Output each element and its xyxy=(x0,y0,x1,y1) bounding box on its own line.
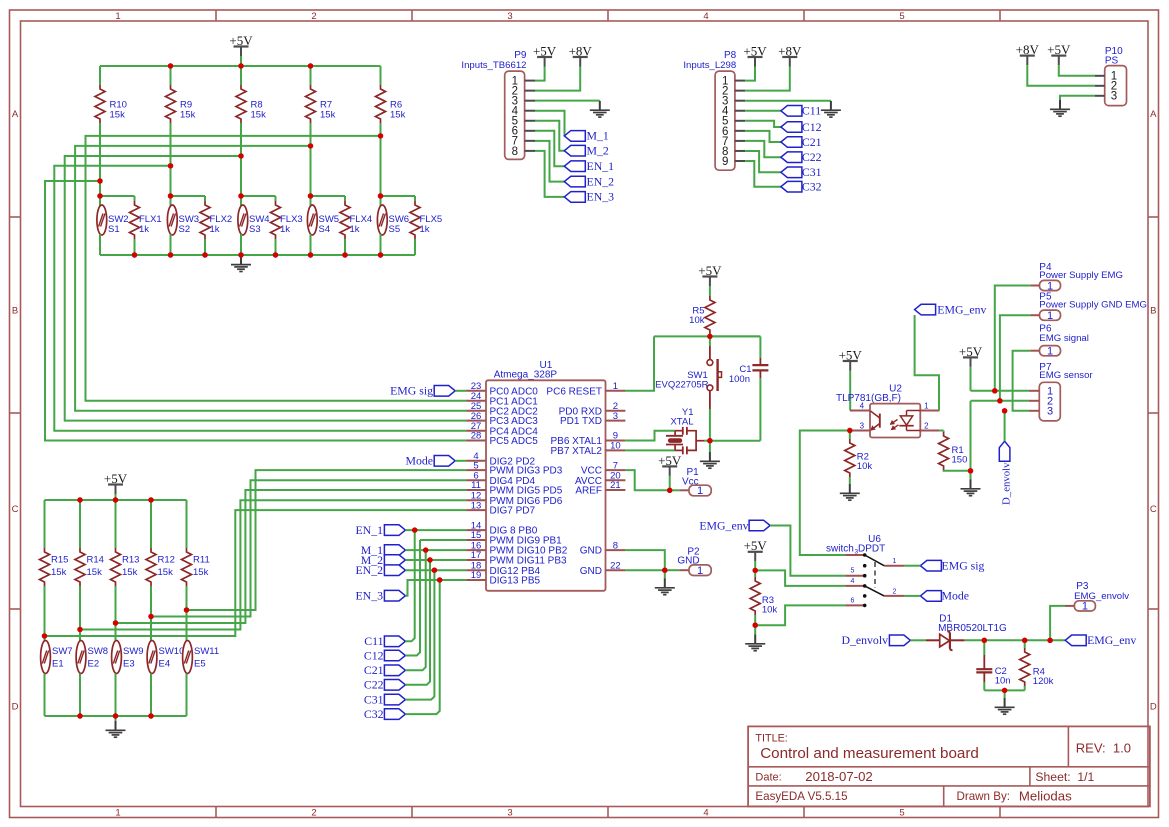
U1 pin 21 AREF xyxy=(575,480,625,496)
svg-text:10n: 10n xyxy=(995,676,1011,687)
U1 pin 22 GND xyxy=(580,560,626,576)
svg-text:E3: E3 xyxy=(123,659,135,670)
svg-text:DIG7 PD7: DIG7 PD7 xyxy=(490,506,536,517)
wire bottom bus top array xyxy=(100,254,415,256)
net flag EN_1 xyxy=(564,159,614,173)
svg-text:S2: S2 xyxy=(179,224,191,235)
resistor R4 120k xyxy=(1020,640,1054,690)
svg-text:EN_2: EN_2 xyxy=(587,174,615,188)
wire EN_3 to U1 pin19 xyxy=(405,577,466,595)
wire P8 pin4 to C11 xyxy=(745,110,781,112)
U1 pin 8 GND xyxy=(580,540,626,556)
power +8V at P8 xyxy=(745,43,802,90)
net flag EMG_env at output xyxy=(1065,633,1136,647)
node top of SW5/FLX4 pair xyxy=(308,193,345,198)
wire M_2 to U1 xyxy=(405,557,466,562)
power +5V at P10 xyxy=(1047,42,1095,76)
wire column R13 to switch xyxy=(115,586,117,642)
wire C12 riser to U1 pin row xyxy=(405,540,420,656)
switch SW6 S5 xyxy=(377,196,409,255)
net flag Mode at switch pin2 xyxy=(905,589,969,603)
switch SW11 E5 xyxy=(183,641,220,717)
svg-text:EMG sensor: EMG sensor xyxy=(1039,370,1093,381)
svg-text:E5: E5 xyxy=(194,659,206,670)
resistor R15 15k xyxy=(40,500,69,586)
U1 pin 9 PB6 XTAL1 xyxy=(550,431,625,447)
net flag EN_2 xyxy=(355,563,405,577)
svg-text:21: 21 xyxy=(610,480,621,491)
svg-text:DIG13 PB5: DIG13 PB5 xyxy=(490,576,541,587)
svg-text:EMG sig: EMG sig xyxy=(390,384,433,398)
U1 pin 2 PD0 RXD xyxy=(559,401,626,417)
switch SW5 S4 xyxy=(307,196,339,255)
wire bottom divider tap to U1 pin xyxy=(77,500,466,632)
wire P10 pin3 to ground xyxy=(1060,96,1095,100)
svg-text:PB7 XTAL2: PB7 XTAL2 xyxy=(550,446,602,457)
svg-text:SW7: SW7 xyxy=(52,646,73,657)
net flag C22 at P8 xyxy=(781,150,822,164)
svg-text:M_1: M_1 xyxy=(587,129,609,143)
svg-text:3: 3 xyxy=(613,411,618,422)
svg-text:2: 2 xyxy=(311,807,316,818)
svg-text:EasyEDA V5.5.15: EasyEDA V5.5.15 xyxy=(755,790,847,803)
svg-text:3: 3 xyxy=(507,11,512,22)
svg-text:EMG sig: EMG sig xyxy=(942,559,985,573)
svg-text:E2: E2 xyxy=(88,659,100,670)
svg-text:2: 2 xyxy=(924,421,929,430)
U1 pin 27 PC4 ADC4 xyxy=(466,421,538,437)
power +5V bottom-left array xyxy=(104,471,128,500)
svg-text:B: B xyxy=(12,305,18,316)
wire column R7 to switch node xyxy=(310,123,312,196)
svg-text:9: 9 xyxy=(722,156,728,168)
wire P6 to P7 pin3 net xyxy=(1002,351,1031,414)
svg-text:S5: S5 xyxy=(389,224,401,235)
wire GND rail P7 pin2 xyxy=(968,401,1029,474)
net flag C22 xyxy=(364,678,406,692)
svg-text:1: 1 xyxy=(613,381,618,392)
wire +5V to P7 pin1 xyxy=(971,390,1029,392)
resistor R2 10k xyxy=(845,428,873,484)
svg-text:3: 3 xyxy=(1111,91,1117,103)
svg-text:PD1 TXD: PD1 TXD xyxy=(560,416,602,427)
wire C2/R4 bottom bus xyxy=(984,688,1024,693)
svg-text:1: 1 xyxy=(115,11,120,22)
svg-text:C: C xyxy=(1150,504,1157,515)
svg-text:15k: 15k xyxy=(122,567,138,578)
resistor R14 15k xyxy=(75,500,104,586)
net flag C32 at P8 xyxy=(781,180,822,194)
wire C11 riser to U1 pin row xyxy=(405,530,414,641)
svg-text:EMG_env: EMG_env xyxy=(937,302,986,316)
U1 pin 1 PC6 RESET xyxy=(546,381,625,397)
resistor R5 10k xyxy=(689,296,715,336)
svg-text:EN_2: EN_2 xyxy=(355,563,383,577)
ground below SW1 xyxy=(700,441,720,469)
node top of SW4/FLX3 pair xyxy=(238,193,275,198)
svg-text:XTAL: XTAL xyxy=(670,417,693,428)
connector P5 Power Supply GND EMG xyxy=(1030,292,1147,323)
junction dots bottom bus E-array xyxy=(77,713,153,718)
pushbutton SW1 EVQ22705R xyxy=(655,336,721,440)
wire P8 pin6 to C21 xyxy=(745,131,781,142)
node top of SW3/FLX2 pair xyxy=(168,193,205,198)
svg-text:EN_1: EN_1 xyxy=(355,523,383,537)
node R5 bottom / reset net xyxy=(654,334,760,339)
svg-text:E1: E1 xyxy=(52,659,64,670)
U1 pin 12 PWM DIG6 PD6 xyxy=(466,490,563,506)
wire divider tap to U1 ADC pin xyxy=(65,153,466,420)
net flag C12 at P8 xyxy=(781,120,822,134)
svg-text:15k: 15k xyxy=(180,110,196,121)
U1 pin 14 DIG 8 PB0 xyxy=(466,520,538,536)
crystal Y1 XTAL xyxy=(625,407,710,454)
svg-text:10k: 10k xyxy=(762,605,778,616)
connector P4 Power Supply EMG xyxy=(1030,262,1123,292)
svg-text:3: 3 xyxy=(507,807,512,818)
svg-text:EVQ22705R: EVQ22705R xyxy=(655,379,708,390)
svg-text:C31: C31 xyxy=(802,165,822,179)
net flag EMG sig at U1 pin23 xyxy=(390,384,466,398)
net flag C21 at P8 xyxy=(781,135,822,149)
svg-text:C21: C21 xyxy=(364,663,384,677)
wire U1 pin15 riser xyxy=(420,539,466,541)
wire column R12 to switch xyxy=(150,586,152,642)
diode D1 MBR0520LT1G xyxy=(910,614,1007,651)
wire P9 pin3 to ground xyxy=(535,100,600,102)
wire P8 pin9 to C32 xyxy=(745,161,781,187)
svg-text:C: C xyxy=(12,504,19,515)
wire U1 GND pins to P2 xyxy=(625,550,667,573)
svg-text:4: 4 xyxy=(860,401,865,410)
power +5V mid at R3 xyxy=(744,538,768,570)
svg-text:1: 1 xyxy=(893,558,897,565)
switch SW7 E1 xyxy=(41,641,73,717)
net flag C31 xyxy=(364,692,406,706)
svg-text:1k: 1k xyxy=(139,224,149,235)
net flag D_envolv vertical xyxy=(999,441,1012,505)
svg-text:Mode: Mode xyxy=(942,589,970,603)
U1 pin 18 DIG12 PB4 xyxy=(466,560,540,576)
wire C22 riser to U1 pin row xyxy=(405,560,430,685)
net flag EN_3 xyxy=(355,589,405,603)
switch SW8 E2 xyxy=(76,641,108,717)
svg-text:1: 1 xyxy=(697,565,703,577)
svg-text:15k: 15k xyxy=(251,110,267,121)
svg-text:C32: C32 xyxy=(802,180,822,194)
svg-text:1k: 1k xyxy=(280,224,290,235)
svg-text:Inputs_TB6612: Inputs_TB6612 xyxy=(461,60,526,71)
U1 pin 3 PD1 TXD xyxy=(560,411,625,427)
svg-text:C12: C12 xyxy=(364,648,384,662)
wire EN_2 to U1 xyxy=(405,568,466,573)
svg-text:A: A xyxy=(1150,109,1157,120)
U1 pin 10 PB7 XTAL2 xyxy=(550,441,625,457)
svg-text:Control and measurement board: Control and measurement board xyxy=(760,745,979,762)
capacitor C1 100n xyxy=(710,336,769,440)
wire R3 bottom to switch pin6 xyxy=(755,605,845,625)
wire C32 riser to U1 pin row xyxy=(405,580,439,714)
wire column R15 to switch xyxy=(44,586,46,642)
ground below R3 xyxy=(745,625,765,651)
ground bottom array xyxy=(106,716,126,737)
switch SW3 S2 xyxy=(167,196,199,255)
wire D1 output node xyxy=(965,638,1065,643)
wire divider tap to U1 ADC pin xyxy=(86,133,467,401)
svg-text:R13: R13 xyxy=(122,555,139,566)
wire U2 pin3 to switch common xyxy=(800,431,850,556)
power +5V at P9 xyxy=(533,43,557,80)
net flag D_envolv at D1 xyxy=(841,633,910,647)
junction dots overlay xyxy=(42,63,1053,718)
svg-text:D_envolv: D_envolv xyxy=(841,633,888,647)
U1 pin 7 VCC xyxy=(581,460,626,476)
power +5V at P8 xyxy=(743,43,767,80)
svg-text:C12: C12 xyxy=(802,120,822,134)
svg-text:8: 8 xyxy=(512,146,518,158)
wire reset net to U1 pin1 xyxy=(625,336,654,390)
junction dots +5V bus xyxy=(168,63,313,68)
svg-text:19: 19 xyxy=(471,570,482,581)
svg-text:15k: 15k xyxy=(87,567,103,578)
wire bottom bus of E-switch array xyxy=(45,715,187,717)
svg-text:Power Supply GND EMG: Power Supply GND EMG xyxy=(1039,300,1147,311)
svg-text:Inputs_L298: Inputs_L298 xyxy=(683,60,736,71)
svg-text:R14: R14 xyxy=(87,555,104,566)
wire +5V bus top array xyxy=(100,65,381,67)
wire P5 to GND rail xyxy=(997,315,1030,403)
svg-text:C11: C11 xyxy=(364,634,383,648)
U1 pin 24 PC1 ADC1 xyxy=(466,391,538,407)
svg-text:100n: 100n xyxy=(729,374,750,385)
svg-text:EMG_env: EMG_env xyxy=(1087,633,1136,647)
svg-text:10: 10 xyxy=(610,441,621,452)
ground top array xyxy=(231,255,251,271)
net flag M_2 xyxy=(564,144,609,158)
wire column R8 to switch node xyxy=(240,123,242,196)
svg-text:15k: 15k xyxy=(390,110,406,121)
wire U1 VCC-AREF to P1 xyxy=(625,470,669,490)
svg-text:EN_3: EN_3 xyxy=(355,589,383,603)
junction dots bottom bus xyxy=(132,252,383,257)
net flag EMG_env at U2 pin1 xyxy=(915,302,987,316)
svg-text:R15: R15 xyxy=(51,555,68,566)
svg-text:150: 150 xyxy=(952,455,968,466)
net flag EN_3 xyxy=(564,190,614,204)
U1 pin 5 PWM DIG3 PD3 xyxy=(466,460,563,476)
wire column R11 to switch xyxy=(186,586,188,642)
wire EMG_env to U2 pin1 xyxy=(915,315,939,411)
node top of SW6/FLX5 pair xyxy=(378,193,415,198)
power +8V at P9 xyxy=(535,43,592,90)
wire P3 riser xyxy=(1050,606,1065,640)
svg-text:SW10: SW10 xyxy=(159,646,185,657)
U1 pin 23 PC0 ADC0 xyxy=(466,381,538,397)
ground at P9 pin3 xyxy=(590,101,610,117)
power +5V at R5 xyxy=(698,263,722,296)
svg-text:C32: C32 xyxy=(364,707,384,721)
wire P8 pin5 to C12 xyxy=(745,121,781,127)
net flag C32 xyxy=(364,707,406,721)
resistor R13 15k xyxy=(111,500,140,586)
svg-text:C31: C31 xyxy=(364,692,384,706)
junction dots bottom array bus xyxy=(77,497,153,502)
ground at P2 xyxy=(655,570,675,595)
switch U6 switch_DPDT xyxy=(826,534,905,607)
wire divider tap to U1 ADC pin xyxy=(54,163,466,431)
U1 pin 15 PWM DIG9 PB1 xyxy=(466,530,562,546)
resistor R3 10k xyxy=(750,570,777,628)
resistor R9 15k xyxy=(166,66,196,123)
svg-text:5: 5 xyxy=(899,11,904,22)
svg-text:1k: 1k xyxy=(210,224,220,235)
net flag C12 xyxy=(364,648,406,662)
resistor R1 150 xyxy=(939,431,971,471)
node top of SW2/FLX1 pair xyxy=(97,193,134,198)
wire divider tap to U1 ADC pin xyxy=(45,178,466,440)
U1 pin 4 DIG2 PD2 xyxy=(466,451,535,467)
svg-text:15k: 15k xyxy=(320,110,336,121)
svg-text:Meliodas: Meliodas xyxy=(1019,788,1072,803)
connector P10 PS xyxy=(1095,46,1127,106)
svg-text:5: 5 xyxy=(899,807,904,818)
ground below R1 xyxy=(961,471,981,496)
ground at P8 pin3 xyxy=(821,101,841,117)
svg-text:EN_3: EN_3 xyxy=(587,190,615,204)
svg-text:GND: GND xyxy=(580,546,602,557)
power +5V near P7 xyxy=(959,344,983,391)
wire C21 riser to U1 pin row xyxy=(405,550,425,670)
U1 pin 16 PWM DIG10 PB2 xyxy=(466,540,568,556)
wire P8 pin8 to C31 xyxy=(745,151,781,172)
svg-text:Drawn By:: Drawn By: xyxy=(957,790,1010,803)
wire P9 pin4 to M_1 xyxy=(535,111,565,136)
svg-text:3: 3 xyxy=(1047,406,1053,418)
wire P9 pin6 to EN_1 xyxy=(535,131,564,166)
net flag M_1 xyxy=(361,543,406,557)
svg-text:2: 2 xyxy=(893,588,897,595)
connector P6 EMG signal xyxy=(1030,324,1088,358)
svg-text:4: 4 xyxy=(703,11,708,22)
svg-text:1: 1 xyxy=(1047,280,1053,292)
svg-text:REV: 1.0: REV: 1.0 xyxy=(1076,740,1131,755)
net flag EN_1 xyxy=(355,523,405,537)
wire C31 riser to U1 pin row xyxy=(405,570,434,699)
svg-text:C22: C22 xyxy=(802,150,822,164)
svg-text:1: 1 xyxy=(1047,346,1053,358)
svg-text:S3: S3 xyxy=(249,224,261,235)
switch SW9 E3 xyxy=(112,641,144,717)
svg-text:15k: 15k xyxy=(193,567,209,578)
net flag EN_2 xyxy=(564,174,614,188)
svg-text:4: 4 xyxy=(703,807,708,818)
svg-text:DPDT: DPDT xyxy=(858,544,885,555)
svg-text:5: 5 xyxy=(851,568,855,575)
svg-text:1: 1 xyxy=(1082,601,1088,613)
svg-text:2: 2 xyxy=(311,11,316,22)
connector P7 EMG sensor xyxy=(1029,362,1094,421)
wire D_envolv to P7 pin3 xyxy=(1004,411,1006,441)
wire P4 to +5V rail xyxy=(992,286,1030,394)
U1 pin 6 DIG4 PD4 xyxy=(466,470,535,486)
svg-text:TITLE:: TITLE: xyxy=(755,733,787,745)
node XTAL ground junction xyxy=(707,438,712,443)
svg-text:SW8: SW8 xyxy=(88,646,109,657)
svg-text:D_envolv: D_envolv xyxy=(1001,462,1013,505)
svg-text:120k: 120k xyxy=(1033,676,1054,687)
svg-text:B: B xyxy=(1150,305,1156,316)
connector P3 EMG_envolv xyxy=(1065,581,1129,613)
capacitor C2 10n xyxy=(976,640,1010,690)
wire bottom divider tap to U1 pin xyxy=(148,480,466,619)
svg-text:PC5 ADC5: PC5 ADC5 xyxy=(490,436,539,447)
wire +5V to switch pin4 xyxy=(753,568,846,586)
title block xyxy=(748,726,1150,806)
net flag C31 at P8 xyxy=(781,165,822,179)
svg-text:Atmega_328P: Atmega_328P xyxy=(494,369,558,380)
resistor FLX5 1k xyxy=(410,196,442,255)
switch SW2 S1 xyxy=(97,196,129,255)
connector P2 GND xyxy=(665,546,711,577)
net flag EMG_env to switch pin5 xyxy=(699,518,770,532)
wire P8 pin7 to C22 xyxy=(745,141,781,157)
resistor R6 15k xyxy=(376,66,406,123)
wire column R9 to switch node xyxy=(170,123,172,196)
svg-text:C22: C22 xyxy=(364,678,384,692)
svg-text:8: 8 xyxy=(613,540,618,551)
svg-text:C11: C11 xyxy=(802,104,821,118)
resistor FLX4 1k xyxy=(340,196,372,255)
resistor FLX3 1k xyxy=(271,196,303,255)
switch SW4 S3 xyxy=(238,196,270,255)
svg-text:A: A xyxy=(12,109,19,120)
svg-text:1: 1 xyxy=(115,807,120,818)
svg-text:PC6 RESET: PC6 RESET xyxy=(546,386,602,397)
switch SW10 E4 xyxy=(147,641,184,717)
svg-text:1: 1 xyxy=(1047,310,1053,322)
svg-text:E4: E4 xyxy=(159,659,171,670)
optocoupler U2 TLP781(GB,F) xyxy=(836,384,939,438)
svg-text:R11: R11 xyxy=(193,555,210,566)
wire bottom divider tap to U1 pin xyxy=(42,510,466,639)
svg-text:S4: S4 xyxy=(319,224,331,235)
resistor R10 15k xyxy=(95,66,127,123)
svg-text:10k: 10k xyxy=(689,315,705,326)
wire +5V bus bottom array xyxy=(45,499,187,501)
svg-text:15k: 15k xyxy=(110,110,126,121)
svg-text:Mode: Mode xyxy=(405,454,433,468)
net flag EMG sig at switch pin1 xyxy=(905,559,985,573)
U1 pin 11 PWM DIG5 PD5 xyxy=(466,480,563,496)
net flag M_2 xyxy=(361,553,406,567)
svg-text:M_2: M_2 xyxy=(587,144,609,158)
resistor R12 15k xyxy=(146,500,175,586)
U1 pin 28 PC5 ADC5 xyxy=(466,431,538,447)
ground below C2/R4 xyxy=(995,690,1015,714)
net flag Mode at U1 pin4 xyxy=(405,454,466,468)
ground below R2 xyxy=(840,484,860,500)
svg-text:1k: 1k xyxy=(350,224,360,235)
svg-text:TLP781(GB,F): TLP781(GB,F) xyxy=(836,393,901,404)
power +5V at P1 xyxy=(658,453,682,493)
wire M_1 to U1 xyxy=(405,547,466,552)
resistor FLX1 1k xyxy=(130,196,162,255)
svg-text:28: 28 xyxy=(471,431,482,442)
power +5V at U2 pin4 xyxy=(839,347,863,410)
svg-text:S1: S1 xyxy=(108,224,120,235)
net flag C11 at P8 xyxy=(781,104,821,118)
wire column R6 to switch node xyxy=(380,123,382,196)
